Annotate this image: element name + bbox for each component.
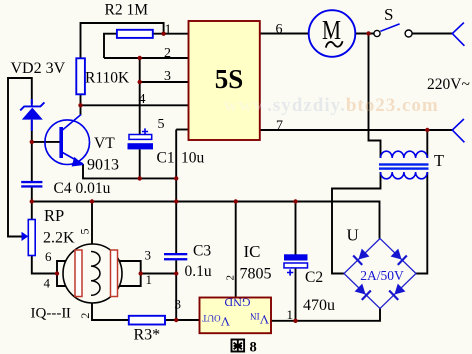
wire pin5/C3 vertical upper xyxy=(175,130,177,254)
wire pin2 xyxy=(104,57,189,59)
transformer T primary coil xyxy=(381,151,428,158)
wire switch node down to primary left xyxy=(369,34,381,159)
switch S terminal 2 xyxy=(405,30,412,37)
svg-text:M: M xyxy=(322,15,341,45)
capacitor C3 xyxy=(164,253,187,260)
svg-text:470u: 470u xyxy=(303,297,335,314)
bridge rectifier U diamond xyxy=(344,239,416,309)
svg-text:U: U xyxy=(347,226,359,245)
transistor VT collector xyxy=(63,115,82,131)
caption figure 8 glyph xyxy=(232,340,245,352)
svg-text:IC: IC xyxy=(244,242,261,261)
sensor electrode right xyxy=(111,250,118,297)
wire pin5 horizontal xyxy=(176,129,188,131)
svg-text:1: 1 xyxy=(165,23,172,38)
svg-text:5: 5 xyxy=(158,117,165,132)
wire sensor pin5 top lead xyxy=(91,202,93,245)
svg-text:4: 4 xyxy=(44,276,51,291)
wire secondary left lead to bridge left xyxy=(332,172,381,274)
svg-text:0.1u: 0.1u xyxy=(185,263,212,280)
IC 5S chip xyxy=(189,21,260,140)
wire secondary right lead to bridge right xyxy=(416,172,427,274)
wire pin1 / R2 right lead xyxy=(153,33,189,35)
bridge diode lower-right xyxy=(389,283,406,300)
AC plug fork top xyxy=(452,23,464,46)
svg-text:3: 3 xyxy=(145,248,152,263)
wire sensor tab to C3 node xyxy=(141,273,177,275)
svg-text:6: 6 xyxy=(276,22,283,37)
wire emitter to node xyxy=(83,164,176,178)
wire pin7 line to plug xyxy=(260,129,453,131)
bridge diode upper-right xyxy=(390,248,407,265)
capacitor C1 xyxy=(128,128,154,178)
svg-text:5S: 5S xyxy=(215,64,244,94)
wire pin3 xyxy=(140,81,189,83)
gas sensor IQ circle xyxy=(63,244,122,303)
bridge diode upper-left xyxy=(353,248,370,265)
svg-text:5: 5 xyxy=(78,229,92,235)
wire C1 top branch vertical xyxy=(139,58,141,135)
svg-text:2: 2 xyxy=(164,46,171,61)
wire RP top lead xyxy=(31,202,33,220)
svg-text:3: 3 xyxy=(164,69,171,84)
wire 7805 GND branch xyxy=(235,202,237,298)
svg-text:1: 1 xyxy=(146,272,153,287)
wire VD2 top loop xyxy=(8,78,32,237)
bridge diode lower-left xyxy=(354,283,371,300)
zener diode VD2 xyxy=(20,99,44,131)
wire mid rail xyxy=(32,202,380,239)
svg-text:1: 1 xyxy=(287,307,294,322)
sensor right tab xyxy=(119,261,141,286)
svg-text:R2 1M: R2 1M xyxy=(105,2,149,19)
svg-text:IQ---II: IQ---II xyxy=(31,306,71,322)
svg-text:www.sydzdiy.bto23.com: www.sydzdiy.bto23.com xyxy=(224,95,439,116)
svg-text:10u: 10u xyxy=(181,150,205,167)
svg-text:C2: C2 xyxy=(305,269,323,286)
wire zener to base node to C4 xyxy=(31,120,33,181)
motor M circle xyxy=(309,10,356,57)
wire top loop R1/R2 to pin1 xyxy=(81,23,164,59)
svg-text:C1: C1 xyxy=(157,150,175,167)
svg-text:220V~: 220V~ xyxy=(427,76,470,93)
wire switch to plug xyxy=(412,33,452,35)
wire 7805 VIN to bottom rail to bridge xyxy=(271,309,380,321)
sensor electrode left xyxy=(75,250,82,297)
transformer T secondary coil xyxy=(381,172,428,179)
sensor heater coil xyxy=(91,252,100,296)
transformer T core xyxy=(379,163,429,169)
svg-text:8: 8 xyxy=(250,340,257,354)
transistor VT base bar xyxy=(59,127,63,158)
svg-text:R110K: R110K xyxy=(85,70,130,87)
svg-text:T: T xyxy=(434,151,444,170)
svg-text:2: 2 xyxy=(78,313,92,319)
wire pin4 xyxy=(81,104,189,106)
transistor VT circle xyxy=(45,120,90,165)
svg-text:3: 3 xyxy=(175,297,182,312)
svg-text:GND: GND xyxy=(224,296,250,310)
wire sensor bottom lead xyxy=(92,303,129,320)
svg-text:7805: 7805 xyxy=(240,266,272,283)
wire R3 to 7805 xyxy=(165,319,200,321)
svg-text:C3: C3 xyxy=(193,243,211,260)
svg-text:7: 7 xyxy=(276,119,283,134)
capacitor C2 xyxy=(284,254,308,275)
svg-text:6: 6 xyxy=(45,249,52,264)
wire primary right lead xyxy=(426,130,428,158)
svg-text:2A/50V: 2A/50V xyxy=(360,268,404,283)
switch S lever xyxy=(380,24,399,31)
wire C4 bottom to rail xyxy=(31,188,33,202)
switch S terminal 1 xyxy=(374,30,380,36)
sensor left tab xyxy=(57,261,66,286)
resistor R3 xyxy=(129,316,165,325)
svg-text:2.2K: 2.2K xyxy=(43,230,75,247)
wire RP bottom lead xyxy=(32,256,57,274)
wire pin6 to motor xyxy=(260,33,309,35)
svg-text:4: 4 xyxy=(139,92,146,107)
resistor R1 xyxy=(76,58,85,94)
wire motor to switch node xyxy=(355,33,374,35)
svg-text:S: S xyxy=(384,5,393,24)
motor tilde xyxy=(326,41,343,47)
svg-text:RP: RP xyxy=(44,206,64,225)
potentiometer RP arrow xyxy=(22,232,29,241)
resistor R2 xyxy=(117,30,153,38)
IC 7805 package box xyxy=(200,298,272,334)
capacitor C4 xyxy=(21,181,42,188)
svg-text:VD2 3V: VD2 3V xyxy=(11,60,66,77)
AC plug fork bottom xyxy=(452,119,464,142)
svg-text:2: 2 xyxy=(224,275,236,281)
wire R2 left lead xyxy=(104,34,117,58)
svg-text:VT: VT xyxy=(94,135,115,152)
potentiometer RP body xyxy=(28,220,35,256)
svg-text:9013: 9013 xyxy=(87,157,119,174)
wire C2 top lead xyxy=(295,202,297,255)
svg-text:R3*: R3* xyxy=(134,327,161,344)
svg-text:C4 0.01u: C4 0.01u xyxy=(54,180,111,197)
wire C3 to bottom node xyxy=(175,260,177,320)
wire base xyxy=(32,141,60,143)
wire C2 bottom lead xyxy=(295,268,297,321)
wire R1 bottom to collector xyxy=(80,94,82,115)
transistor VT emitter with arrow xyxy=(63,153,85,167)
